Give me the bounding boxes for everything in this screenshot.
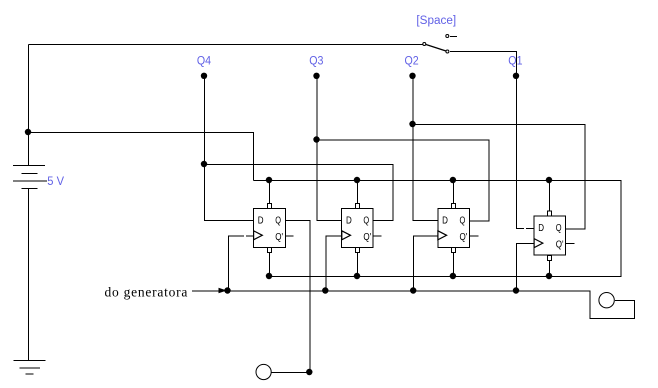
svg-text:D: D <box>346 216 352 227</box>
svg-text:Q1: Q1 <box>508 54 522 68</box>
svg-text:Q: Q <box>275 216 281 227</box>
svg-text:D: D <box>258 216 264 227</box>
svg-text:Q3: Q3 <box>309 54 323 68</box>
svg-text:Q': Q' <box>556 240 564 251</box>
svg-text:5 V: 5 V <box>47 174 64 188</box>
svg-text:D: D <box>538 223 544 234</box>
svg-text:Q': Q' <box>363 232 371 243</box>
svg-text:Q': Q' <box>275 232 283 243</box>
svg-text:Q: Q <box>363 216 369 227</box>
svg-text:Q2: Q2 <box>405 54 419 68</box>
svg-text:do generatora: do generatora <box>105 284 189 299</box>
svg-text:Q: Q <box>556 223 562 234</box>
svg-text:D: D <box>442 216 448 227</box>
svg-text:Q': Q' <box>460 232 468 243</box>
svg-text:Q4: Q4 <box>197 54 211 68</box>
svg-text:[Space]: [Space] <box>416 15 456 27</box>
svg-text:Q: Q <box>460 216 466 227</box>
